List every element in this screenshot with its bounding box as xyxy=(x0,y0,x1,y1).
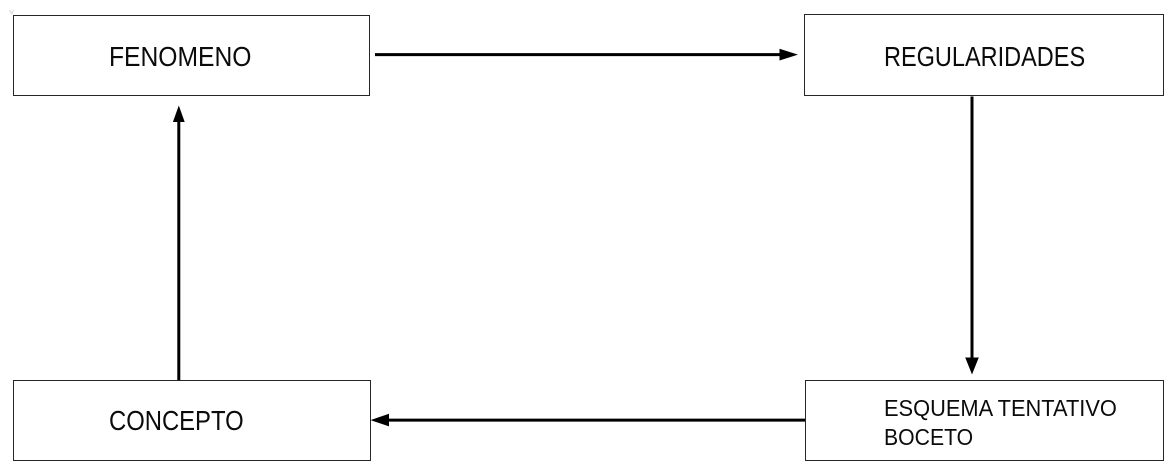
label ESQUEMA TENTATIVO xyxy=(884,397,1117,420)
faint corner mark xyxy=(10,10,14,14)
box FENOMENO xyxy=(13,15,370,96)
box ESQUEMA TENTATIVO / BOCETO xyxy=(805,380,1164,461)
box REGULARIDADES xyxy=(804,14,1164,96)
wire arrow FENOMENO to REGULARIDADES xyxy=(375,49,798,61)
wire arrow CONCEPTO to FENOMENO xyxy=(173,106,185,381)
label FENOMENO xyxy=(109,43,251,70)
box CONCEPTO xyxy=(13,380,371,461)
label BOCETO xyxy=(884,426,973,449)
wire arrow ESQUEMA TENTATIVO to CONCEPTO xyxy=(371,414,806,427)
wire arrow REGULARIDADES to ESQUEMA TENTATIVO xyxy=(965,97,979,375)
label CONCEPTO xyxy=(109,407,244,434)
label REGULARIDADES xyxy=(884,43,1085,70)
